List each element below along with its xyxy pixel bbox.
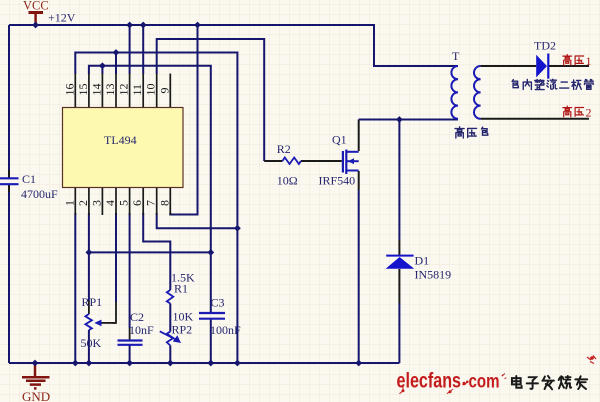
svg-text:R1: R1: [174, 282, 188, 296]
svg-text:4: 4: [103, 200, 117, 206]
junction dot pin7 net A: [234, 225, 241, 232]
transformer designator T: [452, 49, 460, 63]
pin number 8: [157, 200, 171, 206]
junction dot net A ground: [234, 360, 241, 367]
IC top pin stubs: [75, 74, 170, 108]
svg-text:7: 7: [144, 200, 158, 206]
pin number 6: [130, 200, 144, 206]
junction dot Q1 source ground: [355, 360, 362, 367]
wire ground rail: [9, 362, 399, 364]
junction dot VCC on rail: [32, 22, 39, 29]
C2 value 10nF: [129, 323, 154, 337]
svg-text:14: 14: [89, 84, 103, 96]
capacitor C3: [199, 313, 225, 319]
wire pin1 down to ground rail: [74, 213, 76, 363]
wire pin7 to net A junction: [157, 213, 238, 228]
svg-text:4700uF: 4700uF: [21, 187, 58, 201]
pin number 1: [62, 200, 76, 206]
VCC label: [23, 0, 49, 13]
wire pin8 riser to +12V rail: [170, 25, 197, 215]
RP2 value 10K: [173, 310, 194, 324]
wire RP2 bottom to ground rail: [169, 346, 171, 364]
junction dot pin2 branch: [86, 249, 93, 256]
R2 value 10 ohm: [277, 174, 298, 188]
Q1 designator: [332, 133, 347, 147]
wire R2 right lead to Q1 gate: [301, 160, 342, 162]
pin number 15: [76, 84, 90, 96]
junction dot pin12 on rail: [126, 22, 133, 29]
RP1 value 50K: [81, 336, 102, 350]
transistor Q1 IRF540: [343, 150, 359, 175]
wire C1 bottom pin (black): [8, 185, 10, 192]
pin number 12: [117, 83, 131, 95]
logo separator molecule: [463, 381, 469, 385]
svg-text:2: 2: [586, 106, 592, 120]
VCC power symbol: [29, 13, 44, 26]
wire pin13 branch to net A: [115, 53, 117, 75]
wire secondary top lead to TD2: [481, 65, 537, 67]
wire R1 bottom to RP2 top: [169, 304, 171, 332]
svg-text:TL494: TL494: [104, 133, 137, 147]
wire C2 bottom to ground rail: [129, 345, 131, 363]
IC bottom pin stubs: [75, 188, 170, 215]
junction dot RP2 ground: [167, 360, 174, 367]
junction dot pin1 ground: [72, 360, 79, 367]
pin number 14: [89, 84, 103, 96]
pin number 4: [103, 200, 117, 206]
svg-text:C1: C1: [22, 172, 36, 186]
svg-text:IRF540: IRF540: [319, 174, 356, 188]
svg-text:12: 12: [117, 83, 131, 95]
svg-text:+12V: +12V: [48, 11, 76, 25]
pin number 5: [117, 200, 131, 206]
diode D1: [386, 256, 415, 269]
svg-text:C3: C3: [211, 296, 225, 310]
pin number 9: [157, 88, 171, 94]
op IC TL494 body: [63, 108, 184, 188]
svg-text:50K: 50K: [81, 336, 102, 350]
svg-text:T: T: [452, 49, 460, 63]
wire D1 anode pin (black): [398, 269, 400, 303]
R1 value 1.5K: [171, 271, 195, 285]
R2 designator: [277, 142, 291, 156]
svg-text:D1: D1: [415, 254, 430, 268]
svg-text:6: 6: [130, 200, 144, 206]
wire +12V rail from left rail to transformer primary top: [9, 25, 458, 66]
svg-text:1: 1: [586, 54, 592, 68]
RP2 designator: [172, 323, 193, 337]
capacitor C1: [0, 178, 19, 184]
junction dot pin13 on net A: [113, 49, 120, 56]
svg-text:1: 1: [62, 200, 76, 206]
junction dot C2 ground: [126, 360, 133, 367]
wire pin12 to +12V rail: [129, 25, 131, 74]
junction dot GND symbol: [32, 360, 39, 367]
potentiometer RP2: [160, 331, 181, 345]
diode TD2: [536, 54, 548, 79]
wire left rail top segment (to C1 top plate): [8, 25, 10, 170]
D1 value IN5819: [415, 268, 452, 282]
D1 designator: [415, 254, 430, 268]
ground symbol: [22, 363, 50, 388]
svg-text:9: 9: [157, 88, 171, 94]
wire primary bottom / drain node: [359, 119, 458, 121]
C2 designator: [130, 310, 144, 324]
logo molecule decoration under e: [400, 386, 405, 394]
svg-text:16: 16: [62, 84, 76, 96]
C3 designator: [211, 296, 225, 310]
node label HV2 (high voltage 2): [563, 106, 584, 117]
wire left rail bottom segment (C1 bottom to ground rail): [8, 192, 10, 363]
svg-text:10Ω: 10Ω: [277, 174, 298, 188]
svg-text:VCC: VCC: [23, 0, 49, 13]
wire pin11 to +12V rail: [142, 25, 144, 74]
logo molecule decoration under ns: [447, 374, 507, 394]
annotation: rectifier diode inside pack (bao nei zheng liu er ji guan): [512, 79, 593, 89]
svg-text:2: 2: [76, 200, 90, 206]
wire pin4 down to RP1 wiper: [112, 213, 116, 323]
TD2 designator: [534, 39, 556, 53]
pin number 2: [76, 200, 90, 206]
svg-text:TD2: TD2: [534, 39, 556, 53]
svg-text:elecfans: elecfans: [397, 370, 462, 393]
GND label: [22, 389, 50, 402]
+12V net label: [48, 11, 76, 25]
RP1 designator: [82, 295, 103, 309]
logo elecfans.com: [397, 370, 462, 393]
wire R2 left lead: [264, 160, 282, 162]
wire Q1 drain up to primary bottom: [358, 120, 360, 152]
svg-text:RP2: RP2: [172, 323, 193, 337]
logo com: [469, 371, 500, 393]
pin number 3: [89, 200, 103, 206]
node label HV1 (high voltage 1): [563, 55, 584, 66]
wire C1 top pin (black): [8, 170, 10, 178]
capacitor C2: [118, 341, 143, 345]
wire C3 bottom to ground rail: [210, 319, 212, 364]
wire D1 cathode pin (black): [398, 240, 400, 255]
svg-text:5: 5: [117, 200, 131, 206]
wire TD2 cathode to HV1: [548, 65, 589, 67]
wire net A: pin16 along y=52.5 down x=237.4 to ground: [75, 53, 237, 364]
wire D1 bottom lead to ground rail corner: [398, 303, 400, 363]
svg-text:R2: R2: [277, 142, 291, 156]
wire secondary bottom lead to HV2: [481, 118, 589, 120]
wire pin10 to R2 left: [157, 39, 265, 161]
wire pin5 down to C2 top: [129, 213, 131, 340]
pin number 13: [103, 84, 117, 96]
junction dot pin14 on net B: [99, 62, 106, 69]
wire RP1 bottom to ground rail: [88, 330, 90, 363]
logo text: dianzi fashaoyou (electronics fans): [512, 376, 587, 389]
pin number 16: [62, 84, 76, 96]
svg-text:3: 3: [89, 200, 103, 206]
svg-text:10K: 10K: [173, 310, 194, 324]
wire Q1 source pin (black): [358, 171, 360, 190]
svg-text:IN5819: IN5819: [415, 268, 452, 282]
junction dot pin8 riser on rail: [194, 22, 201, 29]
junction dot C3 ground: [207, 360, 214, 367]
junction dot net B C3: [207, 249, 214, 256]
svg-text:100nF: 100nF: [210, 323, 241, 337]
svg-text:Q1: Q1: [332, 133, 347, 147]
svg-text:13: 13: [103, 84, 117, 96]
transformer T secondary winding: [474, 66, 481, 119]
TL494 label: [104, 133, 137, 147]
resistor R2 zigzag: [282, 158, 301, 165]
pin number 11: [130, 84, 144, 96]
svg-text:11: 11: [130, 84, 144, 96]
wire net B: pin15 along y=65.8 down x=210.8 to C3 top: [89, 66, 211, 313]
potentiometer RP1: [85, 314, 116, 330]
transformer T primary winding: [451, 66, 458, 119]
pin number 7: [144, 200, 158, 206]
junction dot RP1 ground: [86, 360, 93, 367]
svg-text:C2: C2: [130, 310, 144, 324]
wire pin6 jog to R1 top: [143, 213, 170, 290]
wire Q1 source down to ground rail: [358, 190, 360, 363]
svg-text:com: com: [469, 371, 500, 393]
decoration red marks top right: [587, 356, 596, 364]
annotation: high voltage pack (gao ya bao): [455, 127, 488, 138]
R1 designator: [174, 282, 188, 296]
Q1 value IRF540: [319, 174, 356, 188]
svg-text:10nF: 10nF: [129, 323, 154, 337]
junction dot pin11 on rail: [140, 22, 147, 29]
wire pin2 down to RP1 top: [88, 213, 90, 314]
wire pin14 branch to net B: [101, 66, 103, 74]
svg-text:RP1: RP1: [82, 295, 103, 309]
C1 value 4700uF: [21, 187, 58, 201]
junction dot drain node D1: [396, 116, 403, 123]
svg-text:GND: GND: [22, 389, 50, 402]
svg-text:8: 8: [157, 200, 171, 206]
svg-text:10: 10: [144, 84, 158, 96]
C3 value 100nF: [210, 323, 241, 337]
pin number 10: [144, 84, 158, 96]
resistor R1 zigzag: [167, 290, 174, 304]
wire pin2 branch y=252.4 to net B vertical: [89, 251, 211, 253]
svg-text:15: 15: [76, 84, 90, 96]
C1 designator: [22, 172, 36, 186]
wire D1 top lead from drain node: [398, 120, 400, 241]
